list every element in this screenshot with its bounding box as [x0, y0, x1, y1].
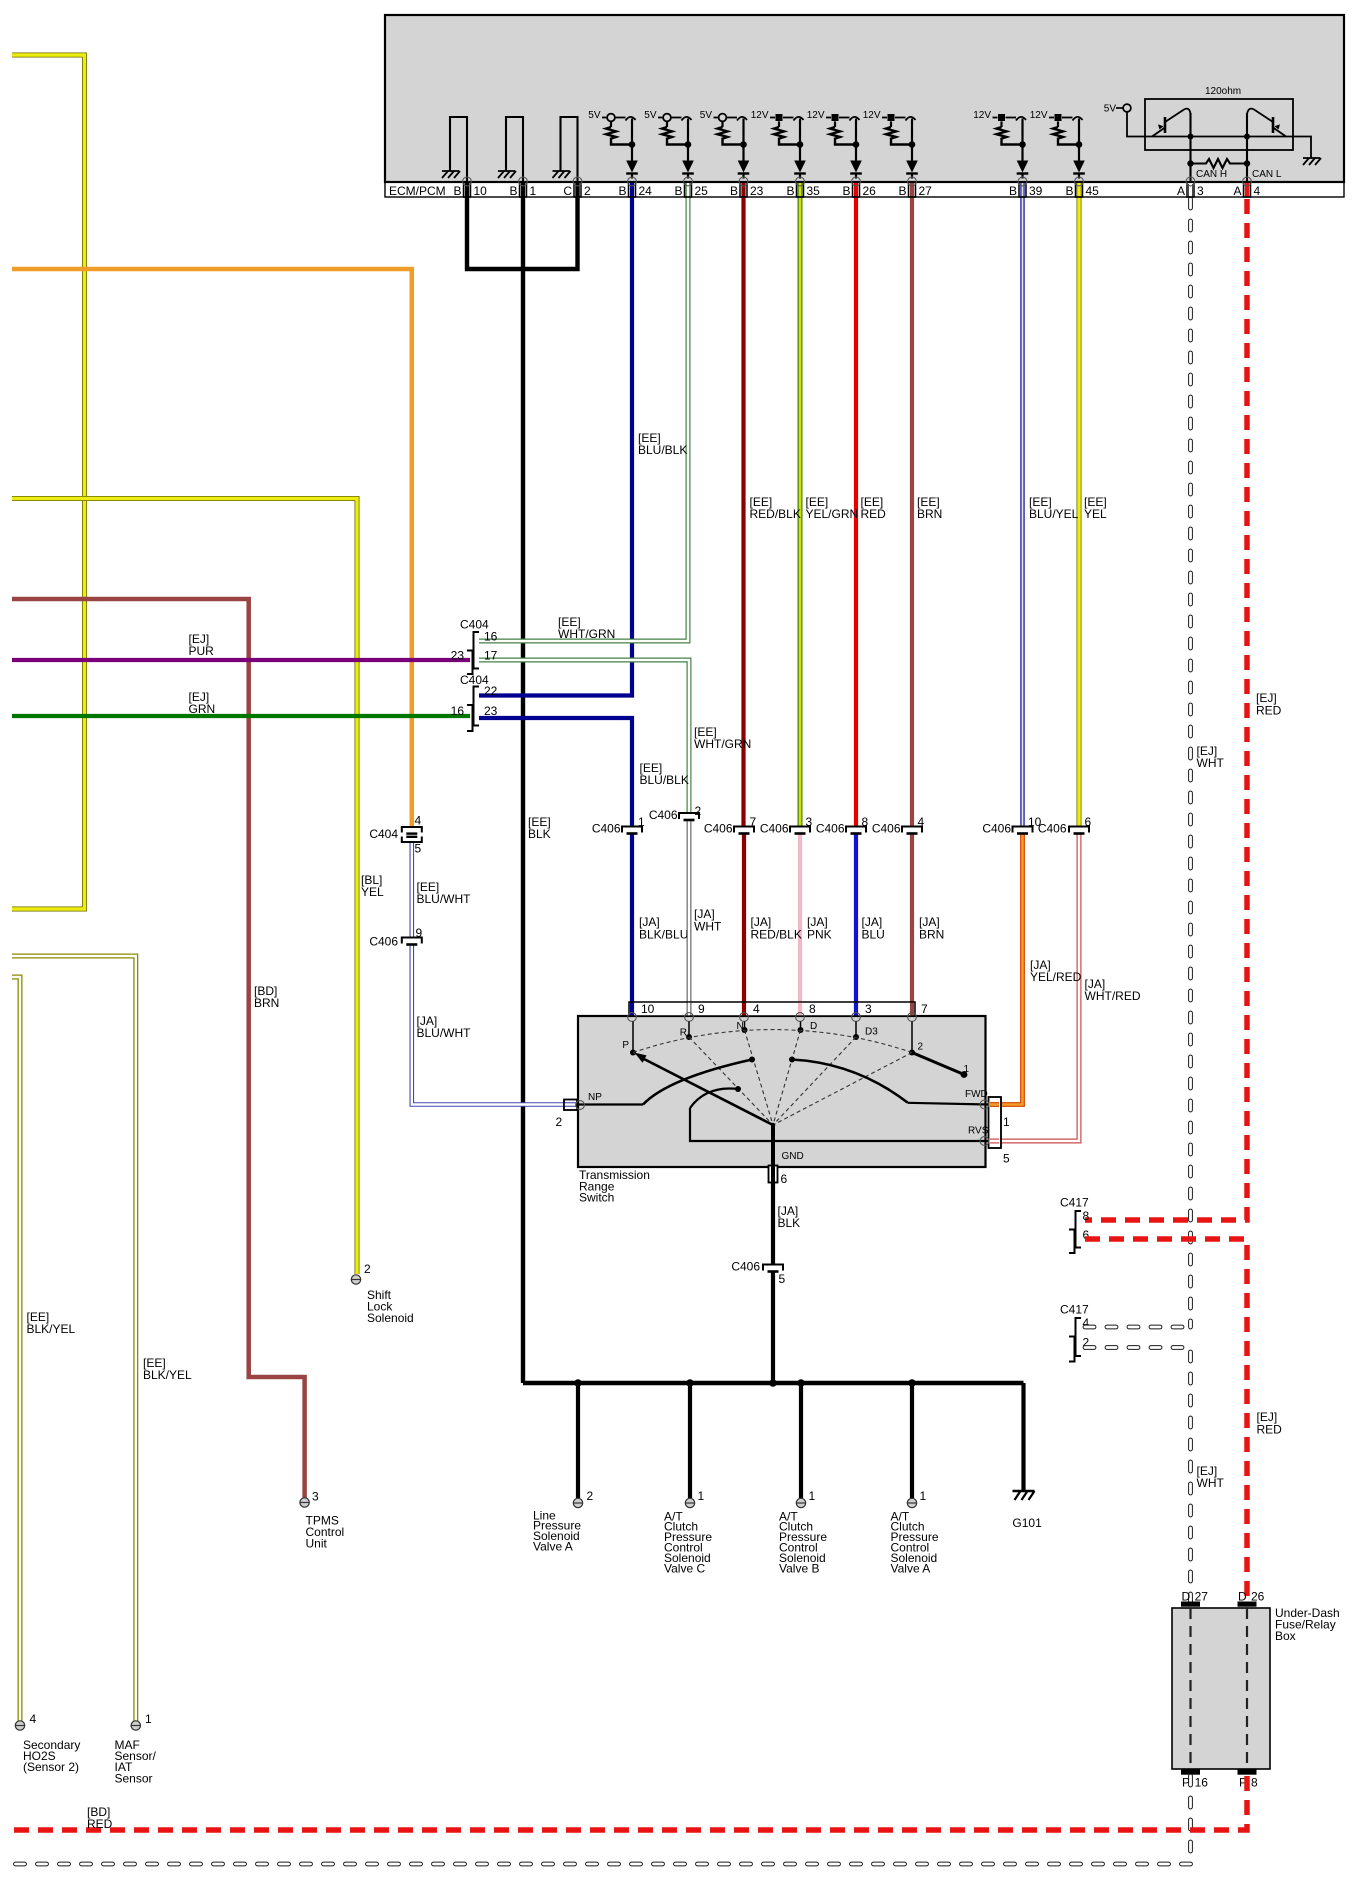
junction dots on ground bus	[574, 1379, 582, 1387]
svg-text:2: 2	[584, 184, 591, 198]
svg-text:RED/BLK: RED/BLK	[750, 507, 801, 521]
fuse box internal dashed path D27-P16	[1189, 1608, 1191, 1769]
svg-text:10: 10	[474, 184, 488, 198]
TRS dashed selector arc	[633, 1030, 912, 1053]
wire B10-C2 black jumper [EE] BLK	[467, 183, 578, 269]
wire [EJ] PUR to C404 pin 23	[12, 658, 470, 662]
svg-text:9: 9	[698, 1002, 705, 1016]
fuse box pin D26	[1238, 1602, 1257, 1607]
ECM/PCM module box	[385, 15, 1344, 182]
svg-text:GRN: GRN	[189, 702, 216, 716]
ECM pin B27	[909, 182, 916, 197]
transistor Q-right (CAN L driver)	[1272, 117, 1275, 133]
TRS FWD/RVS pin block	[989, 1097, 1002, 1148]
CAN driver box with 120ohm terminator	[1145, 99, 1293, 150]
svg-text:C406: C406	[1038, 821, 1067, 835]
svg-text:3: 3	[1197, 184, 1204, 198]
svg-text:CAN H: CAN H	[1196, 169, 1227, 180]
svg-text:120ohm: 120ohm	[1205, 86, 1241, 97]
wire [EJ] GRN to C404 pin 16	[12, 714, 470, 718]
wire [JA] BLU from C406-8 to TRS pin 3	[854, 833, 858, 1016]
TRS pin 4	[740, 1013, 749, 1022]
svg-text:PUR: PUR	[189, 644, 215, 658]
svg-text:26: 26	[863, 184, 877, 198]
svg-text:RED: RED	[1256, 703, 1282, 717]
wire [EE] BLK/YEL to MAF/IAT sensor	[12, 956, 136, 1721]
svg-text:B: B	[618, 184, 626, 198]
svg-text:C417: C417	[1060, 1195, 1089, 1209]
svg-text:4: 4	[753, 1002, 760, 1016]
svg-text:D3: D3	[865, 1026, 878, 1037]
svg-text:BLK/YEL: BLK/YEL	[27, 1322, 76, 1336]
svg-text:2: 2	[556, 1115, 563, 1129]
Under-Dash Fuse/Relay Box	[1172, 1608, 1270, 1769]
wire B39 [EE] BLU/YEL	[1020, 183, 1025, 827]
svg-text:B: B	[730, 184, 738, 198]
wire [JA] BLK from TRS GND to C406 pin 5	[771, 1183, 775, 1265]
svg-text:BLU/BLK: BLU/BLK	[640, 773, 689, 787]
svg-text:RED: RED	[87, 1817, 113, 1831]
svg-text:16: 16	[1195, 1775, 1209, 1789]
wire [JA] PNK from C406-3 to TRS pin 8	[798, 833, 802, 1016]
wire B45 [EE] YEL	[1077, 183, 1082, 827]
svg-text:4: 4	[415, 813, 422, 827]
svg-text:35: 35	[807, 184, 821, 198]
TRS NP pin	[564, 1100, 577, 1111]
svg-text:BLK: BLK	[778, 1216, 801, 1230]
svg-text:C406: C406	[592, 821, 621, 835]
svg-text:C: C	[563, 184, 572, 198]
svg-text:NP: NP	[588, 1092, 602, 1103]
wire B1 long black [EE] BLK down to solenoid bus	[521, 183, 525, 1383]
svg-text:B: B	[1009, 184, 1017, 198]
wire B25 [EE] WHT/GRN to C404 pin 16	[479, 183, 688, 641]
svg-text:BRN: BRN	[254, 996, 279, 1010]
terminal 1 A/T clutch pressure control solenoid valve A	[907, 1498, 916, 1507]
wire orange to C404 pin 4	[12, 269, 412, 827]
svg-text:16: 16	[451, 704, 465, 718]
wire C404 pin 23 [EE] BLU/BLK down to C406 pin 1	[479, 718, 632, 827]
svg-text:D: D	[1182, 1589, 1191, 1603]
terminal 4 secondary HO2S	[15, 1721, 24, 1730]
svg-text:27: 27	[1195, 1589, 1209, 1603]
ECM pin B35	[797, 182, 804, 197]
svg-text:23: 23	[750, 184, 764, 198]
wire [BL] YEL to shift lock solenoid	[12, 499, 357, 1275]
svg-text:RED: RED	[1257, 1422, 1283, 1436]
svg-text:PNK: PNK	[807, 927, 832, 941]
svg-text:1: 1	[698, 1489, 705, 1503]
ECM pin C2	[574, 182, 581, 197]
svg-text:BLU/WHT: BLU/WHT	[417, 1026, 472, 1040]
TRS NP contact line	[578, 1103, 643, 1105]
ground bus wire	[523, 1381, 1024, 1385]
wire [JA] BLK from C406-5 to ground bus	[771, 1272, 775, 1384]
TRS contact stubs	[632, 1022, 634, 1053]
svg-text:B: B	[674, 184, 682, 198]
svg-text:BLU: BLU	[862, 927, 885, 941]
svg-text:5V: 5V	[588, 110, 601, 121]
svg-text:10: 10	[641, 1002, 655, 1016]
svg-text:YEL/GRN: YEL/GRN	[806, 507, 859, 521]
svg-text:C406: C406	[982, 821, 1011, 835]
svg-text:16: 16	[484, 629, 498, 643]
wire A3 [EJ] WHT dashed down to C417 pin 4	[1188, 199, 1193, 1327]
svg-text:B: B	[453, 184, 461, 198]
wire B26 [EE] RED	[854, 183, 858, 827]
TRS strip wire pass-throughs	[630, 1002, 634, 1016]
fuse box pin D27	[1181, 1602, 1200, 1607]
wire [BD] RED dashed from P8 to bottom bus	[12, 1776, 1247, 1830]
svg-text:Valve A: Valve A	[533, 1540, 573, 1554]
ECM internal ground lead at pin x=577.5	[561, 117, 578, 182]
svg-text:23: 23	[451, 648, 465, 662]
svg-text:12V: 12V	[863, 110, 881, 121]
TRS top connector strip	[629, 1002, 915, 1016]
CAN terminating resistor	[1191, 159, 1248, 168]
svg-text:C417: C417	[1060, 1302, 1089, 1316]
svg-text:1: 1	[1003, 1115, 1010, 1129]
TRS pin 10	[628, 1013, 637, 1022]
CAN H vertical wire	[1189, 113, 1191, 182]
svg-text:R: R	[680, 1027, 687, 1038]
wire to A/T clutch solenoid B	[799, 1383, 803, 1498]
svg-text:GND: GND	[782, 1151, 804, 1162]
wire C404 pin 17 [EE] WHT/GRN down to C406 pin 2	[479, 660, 689, 814]
svg-text:3: 3	[865, 1002, 872, 1016]
svg-text:17: 17	[484, 648, 498, 662]
Transmission Range Switch box	[578, 1016, 986, 1167]
svg-text:7: 7	[921, 1002, 928, 1016]
TRS contact dots	[630, 1050, 636, 1056]
TRS dashed fan lines to pivot	[633, 1053, 773, 1126]
ECM internal ground lead at pin x=467	[450, 117, 467, 182]
wire to A/T clutch solenoid A	[910, 1383, 914, 1498]
svg-text:5V: 5V	[700, 110, 713, 121]
TRS pin 8	[796, 1013, 805, 1022]
svg-text:7: 7	[750, 815, 757, 829]
svg-text:5: 5	[779, 1272, 786, 1286]
wire B35 [EE] YEL/GRN	[798, 183, 803, 827]
ECM pin B25	[685, 182, 692, 197]
svg-text:22: 22	[484, 684, 498, 698]
svg-text:WHT: WHT	[1197, 1476, 1225, 1490]
svg-text:45: 45	[1086, 184, 1100, 198]
ECM pin B23	[740, 182, 747, 197]
wire [BD] BRN to TPMS control unit	[12, 599, 305, 1498]
svg-text:3: 3	[312, 1489, 319, 1503]
svg-text:B: B	[786, 184, 794, 198]
wire [EE] BLU/WHT from C404 pin 5 to C406 pin 9	[409, 842, 414, 938]
wire yellow loop top-left [EE] YEL	[12, 55, 85, 909]
svg-text:RVS: RVS	[968, 1125, 989, 1136]
TRS GND wire to pin 6	[771, 1125, 775, 1183]
svg-text:BRN: BRN	[917, 507, 942, 521]
TRS rotor lever with arrow (P)	[643, 1059, 773, 1126]
svg-text:BLU/WHT: BLU/WHT	[417, 892, 472, 906]
svg-text:8: 8	[809, 1002, 816, 1016]
wire B27 [EE] BRN	[910, 183, 914, 827]
svg-text:Unit: Unit	[306, 1536, 328, 1550]
svg-text:2: 2	[364, 1262, 371, 1276]
wire [JA] RED/BLK from C406-7 to TRS pin 4	[742, 833, 746, 1016]
terminal 2 shift lock solenoid	[351, 1275, 360, 1284]
svg-text:YEL/RED: YEL/RED	[1030, 970, 1082, 984]
terminal 2 line pressure solenoid valve A	[573, 1498, 582, 1507]
svg-text:C406: C406	[760, 821, 789, 835]
svg-text:Box: Box	[1275, 1629, 1296, 1643]
svg-text:WHT/GRN: WHT/GRN	[558, 627, 615, 641]
svg-text:5V: 5V	[1104, 103, 1117, 114]
wire [JA] BRN from C406-4 to TRS pin 7	[910, 833, 914, 1016]
svg-text:A: A	[1177, 184, 1185, 198]
svg-text:1: 1	[638, 815, 645, 829]
svg-text:BLK/YEL: BLK/YEL	[143, 1368, 192, 1382]
svg-text:WHT/GRN: WHT/GRN	[694, 737, 751, 751]
svg-text:1: 1	[530, 184, 537, 198]
transistor Q-left (CAN H driver)	[1164, 117, 1167, 133]
svg-text:C406: C406	[872, 821, 901, 835]
fuse box internal dashed path D26-P8	[1246, 1608, 1248, 1769]
wire A3 [EJ] WHT stub in pin box	[1188, 184, 1193, 197]
svg-text:27: 27	[919, 184, 933, 198]
svg-text:B: B	[842, 184, 850, 198]
ECM pin B26	[853, 182, 860, 197]
TRS left wiper arc contact	[643, 1060, 752, 1105]
svg-text:12V: 12V	[973, 110, 991, 121]
ground G101	[1013, 1490, 1035, 1493]
ECM pin B39	[1019, 182, 1026, 197]
ECM pin A4	[1244, 182, 1251, 197]
ECM pin B24	[629, 182, 636, 197]
svg-text:B: B	[1065, 184, 1073, 198]
svg-text:C404: C404	[369, 827, 398, 841]
svg-text:WHT: WHT	[1197, 756, 1225, 770]
wire [EJ] WHT dashed from P16 to bottom bus	[12, 1776, 1191, 1864]
ECM pin A3	[1187, 182, 1194, 197]
TRS pin 7	[908, 1013, 917, 1022]
svg-text:C406: C406	[816, 821, 845, 835]
wire A4 [EJ] RED dashed down to C417 pin 8	[1245, 183, 1250, 197]
svg-text:3: 3	[806, 815, 813, 829]
terminal 1 A/T clutch pressure control solenoid valve B	[796, 1498, 805, 1507]
svg-text:5: 5	[415, 841, 422, 855]
wire [JA] BLU/WHT from C406-9 to TRS NP	[412, 944, 564, 1105]
wire to ground G101	[1021, 1383, 1025, 1491]
svg-text:C406: C406	[369, 934, 398, 948]
terminal 1 A/T clutch pressure control solenoid valve C	[685, 1498, 694, 1507]
ECM pin B45	[1076, 182, 1083, 197]
svg-text:25: 25	[695, 184, 709, 198]
svg-text:5: 5	[1003, 1151, 1010, 1165]
svg-text:12V: 12V	[1030, 110, 1048, 121]
TRS right wiper arc contact	[792, 1060, 908, 1103]
svg-text:4: 4	[30, 1712, 37, 1726]
svg-text:CAN L: CAN L	[1252, 169, 1282, 180]
ECM pin B1	[520, 182, 527, 197]
svg-text:4: 4	[1254, 184, 1261, 198]
TRS right lever to contact 1	[912, 1053, 964, 1075]
svg-text:A: A	[1233, 184, 1241, 198]
svg-text:BLK: BLK	[528, 827, 551, 841]
wire [EJ] RED dashed C417-6 down to fuse box D26	[1085, 1239, 1247, 1602]
svg-text:G101: G101	[1012, 1516, 1042, 1530]
svg-text:12V: 12V	[751, 110, 769, 121]
svg-text:Sensor: Sensor	[115, 1771, 153, 1785]
CAN driver ground	[1287, 137, 1311, 159]
svg-text:Solenoid: Solenoid	[367, 1311, 414, 1325]
CAN internal bus wire	[1145, 136, 1287, 138]
ECM/PCM connector strip	[385, 182, 1344, 197]
svg-text:WHT: WHT	[694, 919, 722, 933]
svg-text:C406: C406	[704, 821, 733, 835]
TRS RVS contact line	[690, 1108, 988, 1141]
svg-text:Valve B: Valve B	[779, 1561, 819, 1575]
svg-text:24: 24	[639, 184, 653, 198]
svg-text:RED: RED	[861, 507, 887, 521]
svg-text:B: B	[509, 184, 517, 198]
svg-text:8: 8	[862, 815, 869, 829]
svg-text:1: 1	[145, 1712, 152, 1726]
svg-text:Valve C: Valve C	[664, 1561, 705, 1575]
svg-text:23: 23	[484, 704, 498, 718]
svg-text:2: 2	[587, 1489, 594, 1503]
wire to line pressure solenoid	[576, 1383, 580, 1498]
svg-text:C406: C406	[731, 1259, 760, 1273]
fuse box pin P16	[1181, 1770, 1200, 1775]
wire B24 [EE] BLU/BLK to C404 pin 22	[479, 183, 632, 696]
wire [EJ] WHT dashed C417-4	[1085, 1325, 1191, 1330]
TRS small wiper arc (RVS)	[690, 1089, 738, 1108]
svg-text:YEL: YEL	[1084, 507, 1107, 521]
terminal 1 MAF/IAT sensor	[131, 1721, 140, 1730]
svg-text:26: 26	[1251, 1589, 1265, 1603]
wire [JA] WHT from C406-2 to TRS pin 9	[687, 821, 692, 1017]
svg-text:5V: 5V	[644, 110, 657, 121]
wire to A/T clutch solenoid C	[688, 1383, 692, 1498]
svg-text:C406: C406	[649, 808, 678, 822]
CAN L vertical wire	[1246, 113, 1248, 182]
wire [JA] BLK/BLU from C406-1 to TRS pin 10	[630, 833, 634, 1016]
ECM internal ground lead at pin x=523	[506, 117, 523, 182]
svg-text:39: 39	[1029, 184, 1043, 198]
svg-text:Valve A: Valve A	[891, 1561, 931, 1575]
svg-text:1: 1	[920, 1489, 927, 1503]
svg-text:2: 2	[695, 804, 702, 818]
svg-text:BLU/YEL: BLU/YEL	[1029, 507, 1079, 521]
svg-text:D: D	[1238, 1589, 1247, 1603]
svg-text:8: 8	[1251, 1775, 1258, 1789]
svg-text:12V: 12V	[807, 110, 825, 121]
wire B23 [EE] RED/BLK	[741, 183, 745, 827]
svg-text:4: 4	[918, 815, 925, 829]
svg-text:BLU/BLK: BLU/BLK	[638, 443, 687, 457]
wire [JA] YEL/RED from C406-10 to TRS FWD	[990, 833, 1023, 1105]
svg-text:BLK/BLU: BLK/BLU	[639, 927, 688, 941]
svg-text:9: 9	[416, 926, 423, 940]
svg-text:D: D	[810, 1021, 817, 1032]
svg-text:8: 8	[1083, 1209, 1090, 1223]
svg-text:1: 1	[809, 1489, 816, 1503]
TRS pin 3	[852, 1013, 861, 1022]
svg-text:BRN: BRN	[919, 927, 944, 941]
wire [JA] WHT/RED from C406-6 to TRS RVS	[990, 833, 1079, 1141]
ECM pin B10	[464, 182, 471, 197]
svg-text:RED/BLK: RED/BLK	[751, 927, 802, 941]
svg-text:WHT/RED: WHT/RED	[1085, 989, 1141, 1003]
svg-text:6: 6	[1085, 815, 1092, 829]
svg-text:Switch: Switch	[579, 1191, 614, 1205]
wire [EJ] WHT dashed C417-2 down to fuse box D27	[1085, 1348, 1191, 1603]
svg-text:FWD: FWD	[965, 1089, 988, 1100]
TRS pin 9	[685, 1013, 694, 1022]
svg-text:2: 2	[918, 1041, 924, 1052]
svg-text:(Sensor 2): (Sensor 2)	[23, 1760, 79, 1774]
svg-text:B: B	[898, 184, 906, 198]
svg-text:P: P	[622, 1040, 629, 1051]
TRS FWD contact line	[908, 1103, 989, 1105]
svg-text:YEL: YEL	[361, 885, 384, 899]
svg-text:6: 6	[781, 1172, 788, 1186]
terminal 3 TPMS control unit	[300, 1498, 309, 1507]
fuse box pin P8	[1238, 1770, 1257, 1775]
wire [EE] BLK/YEL to secondary HO2S	[12, 977, 20, 1721]
svg-text:ECM/PCM: ECM/PCM	[389, 184, 446, 198]
